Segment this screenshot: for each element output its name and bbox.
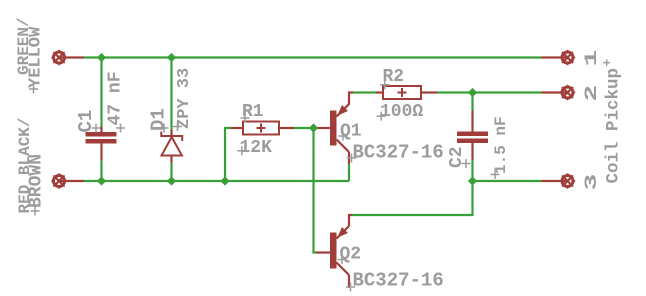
svg-text:BROWN: BROWN bbox=[27, 154, 47, 208]
wire R1 left to bottom rail bbox=[225, 128, 231, 181]
svg-text:12K: 12K bbox=[240, 138, 273, 158]
origin cross 100ohm bbox=[377, 112, 386, 121]
junction node C1 top bbox=[97, 53, 106, 62]
svg-text:BC327-16: BC327-16 bbox=[353, 270, 444, 292]
terminal pad 1 (right top) bbox=[560, 50, 576, 66]
terminal pad 3 (right bottom) bbox=[560, 173, 576, 189]
wire Q1 base pin bbox=[316, 127, 331, 129]
wire top rail GREEN/YELLOW net bbox=[84, 56, 542, 58]
wire C1 top pin bbox=[100, 127, 102, 133]
svg-text:Coil Pickup+: Coil Pickup+ bbox=[600, 58, 624, 183]
wire Q2 emitter net up to bottom-right junction bbox=[352, 181, 473, 215]
wire C1 top drop bbox=[100, 58, 102, 127]
terminal pad 2 (right middle) bbox=[560, 85, 576, 101]
origin cross 47nF bbox=[116, 124, 125, 133]
origin cross D1 bbox=[160, 124, 169, 133]
wire R2 right pin bbox=[421, 91, 437, 93]
wire D1 bottom drop bbox=[170, 163, 172, 182]
junction node R2 C2 top bbox=[468, 88, 477, 97]
junction node D1 top bbox=[167, 53, 176, 62]
wire C2 top drop bbox=[471, 93, 473, 111]
wire Q2 base pin bbox=[316, 251, 331, 253]
origin cross ZPY33 bbox=[173, 122, 182, 131]
junction node C1 bottom bbox=[97, 176, 106, 185]
wire R2 to terminal 2 row bbox=[437, 91, 542, 93]
wire D1 top pin bbox=[170, 130, 172, 137]
wire R1 left pin bbox=[231, 127, 243, 129]
wire pin stub terminal 3 bbox=[542, 180, 568, 182]
origin cross C2 bbox=[462, 159, 471, 168]
origin cross BC327 Q1 bbox=[347, 154, 356, 163]
wire pin stub terminal 1 bbox=[542, 56, 568, 58]
transistor Q2 emitter line bbox=[337, 226, 350, 239]
origin cross Q2 bbox=[338, 255, 347, 264]
wire R2 left pin bbox=[376, 91, 383, 93]
origin cross BC327 Q2 bbox=[346, 283, 355, 292]
wire Q2 collector pin vertical bbox=[348, 275, 350, 288]
origin cross GREEN/YELLOW label bbox=[29, 85, 38, 94]
wire C1 bottom drop bbox=[100, 161, 102, 182]
wire R1 to Q1 base node bbox=[294, 127, 316, 129]
svg-text:3: 3 bbox=[581, 174, 602, 191]
svg-text:YELLOW: YELLOW bbox=[27, 26, 46, 88]
wire Q1 collector to bottom rail bbox=[348, 164, 350, 181]
wire C2 bottom pin bbox=[471, 143, 473, 160]
svg-text:1.5 nF: 1.5 nF bbox=[492, 116, 510, 174]
transistor Q2 base bar bbox=[330, 233, 337, 269]
capacitor C2 plates bbox=[457, 132, 488, 144]
wire C2 bottom drop bbox=[471, 160, 473, 181]
zener diode D1 body bbox=[161, 132, 182, 156]
wire pin stub terminal X1-2 left bottom bbox=[59, 180, 84, 182]
wire D1 top drop bbox=[170, 58, 172, 130]
capacitor C1 plates bbox=[86, 132, 117, 144]
wire Q1 collector pin vertical bbox=[348, 152, 350, 164]
wire pin stub terminal 2 bbox=[542, 91, 568, 93]
svg-text:ZPY 33: ZPY 33 bbox=[175, 68, 194, 129]
transistor Q1 base bar bbox=[330, 111, 337, 146]
svg-text:100Ω: 100Ω bbox=[380, 102, 423, 122]
origin cross R2 bbox=[380, 80, 389, 89]
junction node D1 bottom bbox=[167, 176, 176, 185]
svg-text:C1: C1 bbox=[75, 110, 97, 133]
wire C1 bottom pin bbox=[100, 143, 102, 161]
wire bottom rail RED_BLACK/BROWN net bbox=[84, 180, 349, 182]
wire Q1 base node down to Q2 base bbox=[314, 128, 317, 253]
wire Q1 emitter pin vertical bbox=[349, 93, 353, 105]
resistor R1 body bbox=[243, 122, 279, 135]
svg-text:2: 2 bbox=[581, 85, 602, 102]
wire Q2 emitter pin bbox=[349, 215, 352, 226]
transistor Q2 emitter arrow bbox=[337, 227, 348, 238]
wire pin stub terminal X1-1 left top bbox=[59, 56, 84, 58]
origin cross 12K bbox=[237, 146, 246, 155]
transistor Q2 collector line bbox=[337, 263, 350, 276]
svg-text:C2: C2 bbox=[447, 146, 467, 168]
transistor Q1 collector line bbox=[337, 140, 350, 153]
wire D1 bottom pin bbox=[170, 155, 172, 163]
terminal X1-1 (left top) bbox=[51, 50, 67, 66]
junction node R1 left bottom rail bbox=[220, 176, 229, 185]
junction node Q1 base bbox=[309, 123, 318, 132]
origin cross Q1 bbox=[339, 132, 348, 141]
resistor R2 body bbox=[383, 86, 421, 99]
origin cross R1 bbox=[241, 114, 250, 123]
wire R1 right pin bbox=[279, 127, 294, 129]
svg-text:47 nF: 47 nF bbox=[106, 71, 126, 125]
terminal X1-2 (left bottom) bbox=[51, 173, 67, 189]
origin cross 1.5nF bbox=[491, 170, 500, 179]
transistor Q1 emitter line bbox=[337, 101, 350, 117]
wire junction C2 to terminal 3 bbox=[473, 180, 542, 182]
origin cross RED_BLACK/BROWN label bbox=[31, 207, 40, 216]
svg-text:BC327-16: BC327-16 bbox=[353, 142, 444, 164]
junction node C2 bottom bbox=[468, 176, 477, 185]
transistor Q1 emitter arrow bbox=[337, 105, 348, 116]
wire Q1 emitter to R2 bbox=[353, 91, 376, 93]
origin cross C1 bbox=[92, 124, 101, 133]
wire C2 top pin bbox=[471, 111, 473, 132]
svg-text:R2: R2 bbox=[383, 67, 405, 87]
